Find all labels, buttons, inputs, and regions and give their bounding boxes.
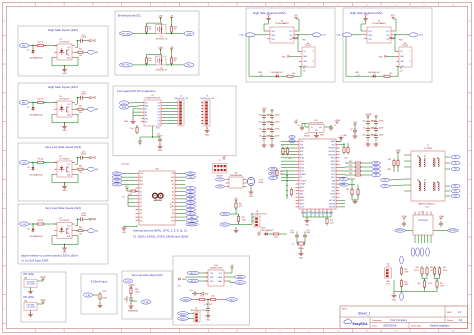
hso output label 8 [312,33,321,37]
i2c wires 6 [133,64,156,66]
reg +3V3A flag [295,122,297,124]
svg-text:GND: GND [379,56,384,58]
hso input wires 9 [352,34,364,36]
svg-text:MOSI: MOSI [374,163,379,165]
svg-text:+3V3A: +3V3A [334,119,340,122]
svg-text:C33: C33 [258,136,261,138]
svg-text:+3V3: +3V3 [158,47,162,49]
brn res below 2 [436,279,438,281]
svg-text:D1: D1 [27,50,29,52]
svg-text:+3V3: +3V3 [353,122,357,124]
svg-text:RJ1: RJ1 [425,206,428,208]
brn res pair 1 [421,266,423,268]
svg-text:I_IN: I_IN [86,295,91,297]
junction 4 [32,223,33,224]
svg-text:OUT1: OUT1 [115,177,120,179]
svg-text:R2b: R2b [79,105,82,107]
svg-text:4.7uF: 4.7uF [386,284,390,286]
svg-text:A7: A7 [189,187,191,190]
power flag +3V3A capcol 6 [367,116,369,118]
power flags i2c 6 [160,49,162,51]
W5500 +3V3 cap small [354,124,356,126]
vcc wire 1 [75,46,77,48]
hso opto loop wire 8 [298,51,299,53]
svg-text:OUT2: OUT2 [115,180,120,182]
hso output wire 8 [297,34,312,36]
svg-text:12K1: 12K1 [330,222,334,224]
brn left oval [400,256,404,264]
VLout output label [131,300,137,302]
svg-text:10k: 10k [174,29,177,31]
svg-text:A1: A1 [189,208,191,211]
svg-text:J: J [4,280,5,282]
svg-text:VIN (24V): VIN (24V) [23,273,34,276]
hso out gnd arrow 9 [389,37,391,39]
svg-text:R4b: R4b [79,227,82,229]
crystal Y1 [299,242,304,245]
i2c wires 5 [133,33,156,35]
svg-text:10k: 10k [79,172,82,174]
svg-text:High Side Inputs (24V): High Side Inputs (24V) [48,28,78,32]
svg-text:TLP2361(TP: TLP2361(TP [59,158,70,160]
svg-text:EXT_SCL: EXT_SCL [122,65,130,67]
transformer secondary coils [433,158,434,160]
svg-text:D7: D7 [140,206,142,208]
svg-text:+3V3A: +3V3A [365,113,372,116]
svg-text:R16: R16 [280,171,283,173]
svg-text:100nF: 100nF [275,136,280,138]
gnd arrow 2 [88,97,91,99]
arduino res R11 [129,190,131,192]
vcc wire 2 [75,103,77,105]
capcol 3 gnd [263,141,265,143]
VCC flag [37,280,43,282]
svg-text:SCL: SCL [189,195,192,197]
frame column ticks top/bottom [34,3,36,7]
transformer left components [397,159,399,161]
i2c right label SCL [184,63,194,67]
svg-text:IO6: IO6 [158,120,161,122]
transformer left ovals [381,178,390,181]
svg-text:GND: GND [392,300,397,302]
output net label 3 [85,168,88,170]
power flag capcol 4 [271,110,273,112]
svg-text:L-IN2: L-IN2 [336,34,340,36]
svg-text:PMODE2: PMODE2 [329,148,336,150]
reg gnd [316,133,318,135]
wire input 3 [29,162,37,164]
transformer primary coils [419,182,420,184]
junction 3 [32,162,33,163]
W5500 right ovals [372,161,381,164]
CAN TX/RX labels [187,271,199,275]
svg-text:A0: A0 [145,108,147,111]
svg-text:GND: GND [282,56,287,58]
magjack pins top [414,212,416,216]
svg-text:Y1: Y1 [292,244,294,246]
svg-text:LED8: LED8 [258,72,262,74]
LED5 resistor [271,233,273,235]
W5500 bottom pins [302,209,304,212]
block Very Low Side Inputs (3v3) #1 [18,143,108,201]
svg-text:100nF: 100nF [275,122,280,124]
crystal gnd [300,247,302,253]
svg-text:R22: R22 [289,158,292,160]
svg-text:D2: D2 [27,107,29,109]
svg-text:Narshil Leghijam: Narshil Leghijam [430,324,449,328]
ioexp left labels [120,101,129,105]
svg-text:R21: R21 [282,145,285,147]
svg-text:RST: RST [171,180,174,182]
svg-text:PMODE1: PMODE1 [329,151,336,153]
svg-text:GND RST: GND RST [216,176,223,178]
svg-text:VIN: VIN [171,173,174,175]
svg-text:REF: REF [190,217,193,219]
svg-text:49R9: 49R9 [405,284,409,286]
svg-text:C72: C72 [370,135,373,137]
svg-text:485_A: 485_A [223,213,229,216]
ioexp pins right [161,102,164,104]
svg-text:IN1: IN1 [95,52,98,54]
W5500 right pins [336,141,340,143]
block Very Low Side Inputs (3v3) #2 [18,204,108,264]
svg-text:TITLE:: TITLE: [342,309,348,311]
svg-text:IO1: IO1 [158,105,161,107]
svg-text:GND: GND [266,15,271,17]
feedback wire U1 [52,56,54,58]
svg-text:100nF: 100nF [379,121,384,123]
hso opto pins 8 [299,51,302,53]
ioexp wires to header [164,102,176,104]
svg-text:CANH1: CANH1 [237,276,243,279]
CAN conn body [194,312,200,322]
svg-text:GND: GND [62,130,67,132]
junction 2 [32,102,33,103]
svg-text:GND: GND [158,150,163,152]
svg-text:BM-04B(1.0)-12-UP: BM-04B(1.0)-12-UP [191,310,208,312]
svg-text:R26: R26 [346,189,349,191]
brn vertical ovals [411,248,415,256]
ioexp vdd wire [152,126,154,137]
CAN right ovals [235,275,246,279]
svg-text:10k: 10k [79,55,82,57]
hso +5V 8 [303,67,305,69]
CAN cap gnd arrow [201,292,204,294]
svg-text:C42: C42 [266,129,269,131]
capcol 7 gnd [375,140,377,142]
svg-text:GND: GND [249,196,254,198]
serial ovals [220,212,230,215]
svg-text:49R9: 49R9 [387,169,391,171]
W5500 right resistor row [353,162,355,164]
hso gnd wire 9 [361,30,364,32]
svg-text:IO5: IO5 [158,117,161,119]
svg-text:GND: GND [363,15,368,17]
reg gnd [30,287,32,290]
svg-text:R1b: R1b [79,48,82,50]
svg-text:REV:: REV: [447,312,452,314]
svg-text:GND: GND [206,320,211,322]
svg-text:DNI-MAX3485: DNI-MAX3485 [230,174,242,177]
ioexp gnd left [132,119,134,122]
reg gnd [30,310,32,313]
U13 gnd [250,186,252,191]
svg-text:INTn: INTn [332,144,335,146]
block VIN (24V) [21,272,66,322]
svg-text:RX+: RX+ [454,186,457,188]
svg-text:D3: D3 [140,191,142,193]
VLout input label [124,279,133,283]
svg-text:MISO: MISO [271,173,276,175]
svg-text:D5: D5 [140,199,142,201]
svg-text:VCC: VCC [391,15,396,17]
svg-text:J7: J7 [219,160,221,162]
svg-text:TX1: TX1 [140,173,143,175]
mosfet Q5 [161,22,162,24]
svg-text:IN4: IN4 [95,231,98,233]
svg-text:R33: R33 [349,173,352,175]
block Very Low side output (3v3) [122,271,172,319]
svg-text:BSS806NE: BSS806NE [128,311,138,313]
wire input 4 [29,223,37,225]
TVS diode D3 [32,163,34,167]
svg-text:SPDLED: SPDLED [329,207,336,209]
svg-text:IO4: IO4 [158,114,161,116]
svg-text:PCA9574PW,118: PCA9574PW,118 [145,97,161,100]
hso IC pins 8 [267,30,270,32]
hso wire to opto 8 [295,75,301,77]
svg-text:+3V3A: +3V3A [401,215,407,218]
svg-text:VO14642AABTR: VO14642AABTR [372,22,386,25]
svg-text:-5/1.5-W36: -5/1.5-W36 [26,307,34,309]
transformer T1 body [411,151,445,201]
svg-text:R66: R66 [443,267,446,269]
svg-text:DNI-SMAJ26CA: DNI-SMAJ26CA [30,114,44,117]
ioexp resistor R6 [136,126,138,128]
svg-text:C62: C62 [362,135,365,137]
svg-text:TXN: TXN [300,144,303,146]
4-20mA net label [84,293,93,297]
svg-text:TCT: TCT [454,169,457,171]
svg-text:1.0: 1.0 [458,310,462,314]
VLout gnd [130,304,132,307]
svg-text:SCLK: SCLK [300,207,304,209]
svg-text:XI/CLKIN: XI/CLKIN [300,180,306,182]
pullup resistor R2b [75,108,77,110]
svg-text:C8: C8 [297,125,299,127]
VCC flag [37,303,43,305]
svg-text:D2: D2 [140,188,142,190]
svg-text:OUT: OUT [386,35,389,37]
TVS diode D2 [32,103,34,107]
capcol 4 gnd [271,141,273,143]
svg-text:3V3: 3V3 [190,220,193,222]
svg-text:D11: D11 [140,220,143,222]
svg-text:49R9: 49R9 [405,271,409,273]
W5500 bottom gnd [306,217,308,219]
svg-text:C32: C32 [258,129,261,131]
U13 left labels [216,178,225,181]
svg-text:CLK: CLK [291,137,294,139]
svg-text:OUR-M-2.54_1x8: OUR-M-2.54_1x8 [200,98,214,100]
U13 pins [226,179,230,181]
svg-text:C70: C70 [370,121,373,123]
svg-text:Bi-directional I2C: Bi-directional I2C [118,14,142,18]
mid right cluster flags [397,152,399,154]
svg-text:GND: GND [91,41,96,43]
svg-text:RX0: RX0 [218,186,221,188]
svg-text:+5V: +5V [171,184,174,186]
svg-text:EXT_SDA: EXT_SDA [122,32,131,35]
transformer right pins [445,156,450,158]
svg-text:CANH1: CANH1 [180,312,186,315]
svg-text:OUT1: OUT1 [321,35,326,37]
ioexp pins left [141,102,144,104]
svg-text:A2: A2 [145,114,147,117]
pullup resistor R1b [75,51,77,53]
svg-text:LED5: LED5 [261,228,266,230]
brn gnd [393,292,395,295]
svg-text:R31: R31 [349,165,352,167]
CAN right flag [231,267,233,269]
svg-text:TLV70233DBVR: TLV70233DBVR [309,122,324,124]
transformer primary coils [419,158,420,160]
svg-text:Sheet:: Sheet: [447,319,454,322]
svg-text:Very Low Side Inputs (3v3): Very Low Side Inputs (3v3) [45,145,81,149]
svg-text:A3: A3 [189,201,191,204]
W5500 gnd top right [336,141,341,143]
brn res below 1 [424,279,426,281]
svg-text:VCC: VCC [41,277,46,279]
hso res 8 [280,75,287,77]
serial wires [230,213,236,215]
clk ovals [289,136,295,139]
pin marks U4 [54,223,57,225]
block High Side Inputs (24V) #1 [18,26,108,76]
brn oval bottom left [400,293,404,301]
svg-text:3V3: 3V3 [171,220,174,222]
svg-text:10k: 10k [79,233,82,235]
svg-text:CT-TX862: CT-TX862 [424,148,433,150]
title block grid lines [340,316,468,318]
svg-text:i.e. for 3v3 input 220R: i.e. for 3v3 input 220R [21,259,48,263]
svg-text:GND: GND [295,38,300,40]
reg caps [301,125,303,127]
svg-text:RST: RST [291,141,294,143]
arduino left wires [122,173,136,175]
svg-text:MOSI: MOSI [331,171,335,173]
hso vcc wire 8 [297,30,299,32]
net label YL2K [19,222,29,226]
VLout +3V3 flag [130,287,132,289]
pullup resistor R4b [75,230,77,232]
svg-text:GND: GND [320,135,325,137]
svg-text:A6: A6 [189,190,191,193]
gnd 2 [64,124,66,127]
svg-text:C60: C60 [362,121,365,123]
svg-text:100nF: 100nF [81,215,87,217]
easyeda logo [344,319,352,324]
svg-text:T1: T1 [427,145,429,147]
svg-text:YL2K: YL2K [22,224,27,226]
svg-text:L-IN1: L-IN1 [239,34,243,36]
hso out gnd arrow 8 [292,37,294,39]
gnd 3 [64,184,66,187]
svg-text:DNI-SMAJ26CA: DNI-SMAJ26CA [30,235,44,238]
gnd arrow 4 [88,218,91,220]
i2c left label EXT_SCL [119,63,132,67]
svg-text:DNI-SMAJ26CA: DNI-SMAJ26CA [30,57,44,60]
W5500 top right components [343,146,345,148]
frame row ticks left/right [3,34,7,36]
svg-text:A0: A0 [189,212,191,215]
svg-text:J: J [469,280,470,282]
svg-text:C61: C61 [362,128,365,130]
svg-text:IN3: IN3 [95,169,98,171]
svg-text:MOSI: MOSI [271,169,276,171]
hso vcc flag 9 [392,17,394,19]
block High Side Inputs (24V) #2 [18,83,108,138]
W5500 right wires [340,144,346,146]
svg-text:YL.A0: YL.A0 [143,301,150,304]
svg-text:R25: R25 [274,237,277,239]
block High Side Outputs (24V) #2 [343,8,432,82]
svg-text:10k: 10k [79,112,82,114]
svg-text:MISO: MISO [374,167,379,169]
resistor Rp2 5 [171,18,173,26]
svg-text:GND: GND [392,38,397,40]
svg-text:V: V [312,51,313,53]
serial gnd bottom [235,227,237,229]
svg-text:TLP2361(TP: TLP2361(TP [59,98,70,100]
svg-text:-5/1.5-W36: -5/1.5-W36 [26,284,34,286]
vcc wire 4 [75,225,77,227]
TVS diode D4 [32,224,34,228]
net label YL1K [19,160,29,164]
block Low speed 5V I/O expansion [113,86,236,156]
svg-text:R32: R32 [349,169,352,171]
svg-text:TLP2361(TP: TLP2361(TP [59,220,70,222]
CAN term gnd [207,313,209,315]
svg-text:OUT3: OUT3 [115,184,120,186]
svg-text:R2 10k: R2 10k [38,99,44,101]
output net label 4 [85,230,88,232]
svg-text:VCC: VCC [41,300,46,302]
svg-text:VO14642AABTR: VO14642AABTR [275,22,289,25]
svg-text:485_B: 485_B [223,224,229,226]
svg-text:+3V3: +3V3 [128,285,134,287]
svg-text:V: V [409,51,410,53]
svg-text:adjust resistor so current acr: adjust resistor so current across LED is… [21,254,79,258]
svg-text:RST: RST [145,118,148,120]
svg-text:RX-: RX- [454,191,457,193]
svg-text:GND: GND [62,252,67,254]
VLout resistor R66 [130,287,132,288]
wire input 2 [29,102,37,104]
svg-text:OUR-M-2.54_1x8: OUR-M-2.54_1x8 [174,98,188,100]
net label INV1 [19,43,29,47]
svg-text:10k: 10k [174,60,177,62]
svg-text:100nF: 100nF [379,135,384,137]
ioexp cap gnd [159,143,161,145]
block High Side Outputs (24V) #1 [246,8,335,82]
W5500 bottom res [326,217,328,219]
resistor Rp1 5 [160,18,162,24]
svg-text:RSTn: RSTn [331,177,335,179]
CAN term cap [207,299,208,300]
transformer secondary coils [433,182,434,184]
svg-text:INT: INT [145,122,148,124]
